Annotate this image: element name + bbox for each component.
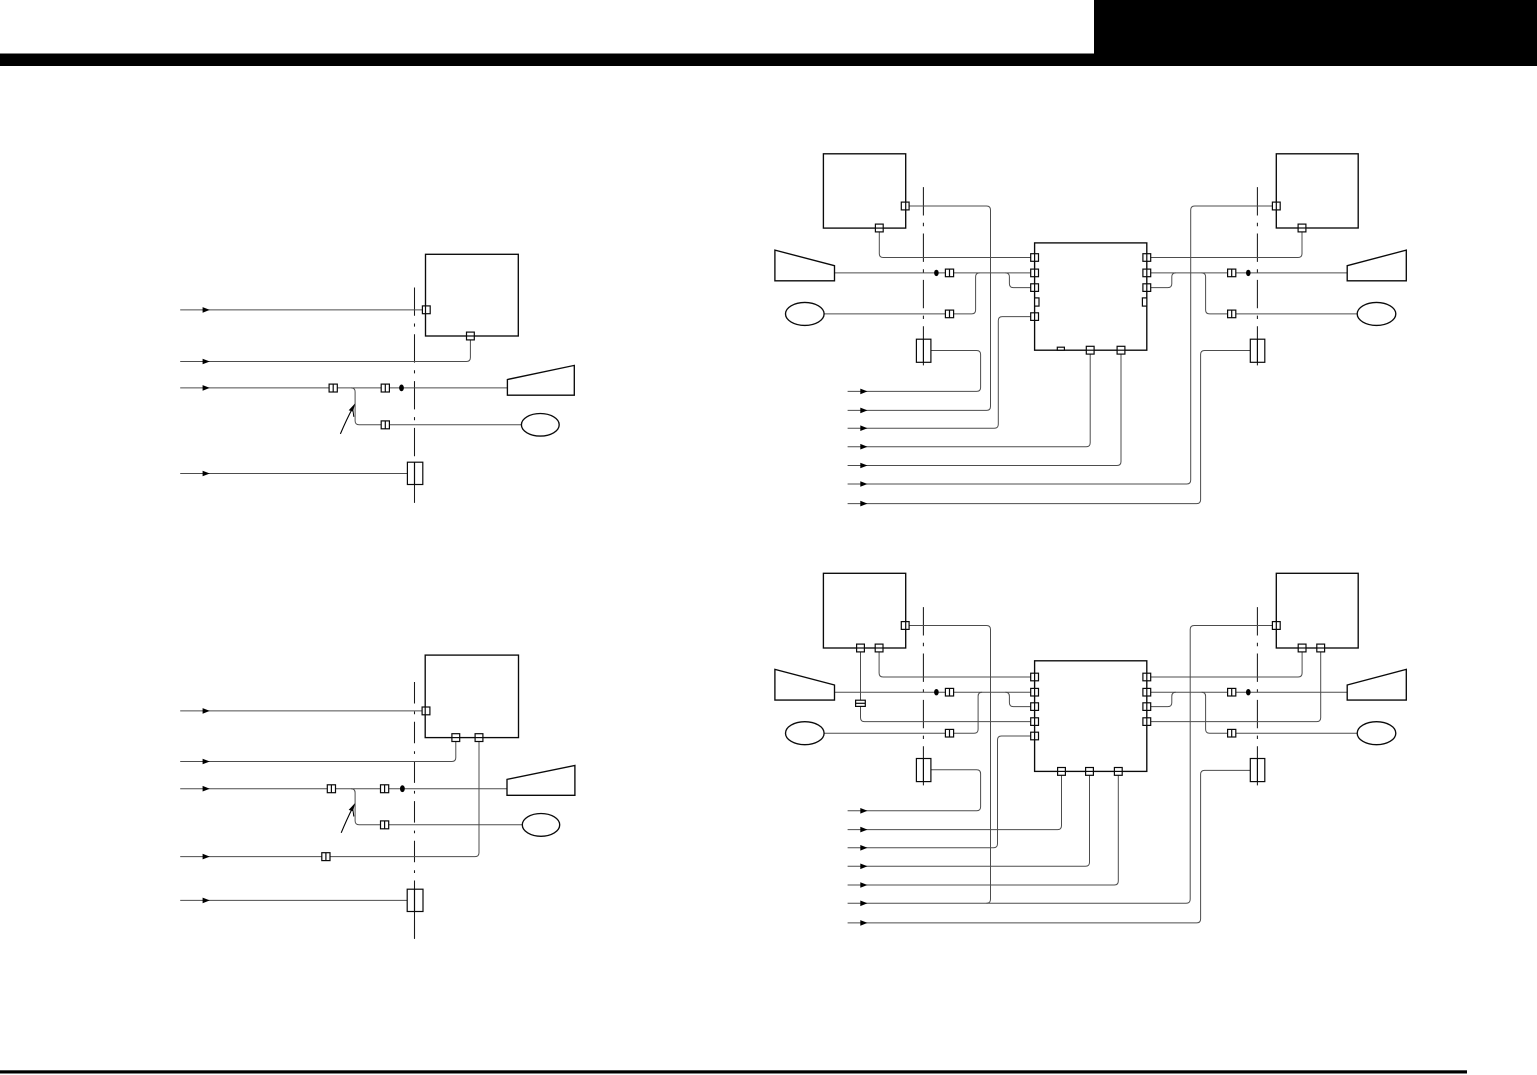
left box bottom connector A divider xyxy=(857,647,865,649)
left IF board divider xyxy=(922,339,924,362)
center amplifier box xyxy=(1035,661,1147,772)
center box left row2 connector xyxy=(1031,269,1039,277)
right tweeter-line inline connector xyxy=(1228,729,1236,737)
arrowhead A6 xyxy=(860,901,867,907)
wire A1 to left IF board xyxy=(848,351,981,392)
arrowhead L1 xyxy=(203,708,210,714)
center box bottom connector1 divider xyxy=(1058,770,1066,772)
center box right row3 divider xyxy=(1146,284,1148,292)
box bottom connector2 divider xyxy=(475,737,483,739)
center box left row3 divider xyxy=(1034,703,1036,711)
left speaker-line inline connector divider xyxy=(949,688,951,696)
tweeter ellipse xyxy=(522,814,559,837)
amplifier box xyxy=(425,655,518,738)
box left-edge connector divider xyxy=(424,707,426,715)
right box bottom connector xyxy=(1298,224,1306,232)
pointer arrow xyxy=(341,808,352,833)
center box left row1 divider xyxy=(1034,254,1036,262)
left center chain line xyxy=(922,607,924,787)
arrowhead A1 xyxy=(860,808,867,814)
wire left speaker line xyxy=(835,272,1031,274)
right junction dot xyxy=(1246,689,1251,695)
center amplifier box xyxy=(1035,243,1147,350)
left speaker horn xyxy=(775,250,835,281)
pointer arrowhead xyxy=(349,803,356,811)
left tweeter ellipse xyxy=(786,302,825,325)
arrowhead A5 xyxy=(860,882,867,888)
right box left-edge connector xyxy=(1272,622,1280,630)
right tweeter ellipse xyxy=(1357,302,1396,325)
right box left-edge connector xyxy=(1272,202,1280,210)
center box left row4 connector xyxy=(1031,718,1039,726)
center box left row2 divider xyxy=(1034,688,1036,696)
wire right box bottom to center row1 xyxy=(1151,232,1302,258)
center box left row1 connector xyxy=(1031,254,1039,262)
arrowhead A2 xyxy=(860,408,867,414)
pointer arrow xyxy=(340,409,352,434)
wire left tweeter line xyxy=(824,273,980,314)
center box bottom connector3 divider xyxy=(1114,770,1122,772)
wire L5 xyxy=(180,473,407,475)
right box bottom connector B divider xyxy=(1298,647,1306,649)
wire A3 to center box row5 xyxy=(848,317,1031,429)
arrowhead A3 xyxy=(860,845,867,851)
right speaker horn xyxy=(1347,669,1406,700)
pointer arrowhead xyxy=(349,403,356,411)
left center chain line xyxy=(922,187,924,366)
wire A4 to center box bottom conn1 xyxy=(848,354,1091,447)
connector C3 divider xyxy=(384,821,386,829)
connector C2 divider xyxy=(384,785,386,793)
pointer arrowhead tail xyxy=(352,810,355,816)
right speaker-line inline connector xyxy=(1228,269,1236,277)
connector C3 divider xyxy=(384,421,386,429)
wire left box bottom to center row1 xyxy=(879,232,1031,258)
arrowhead L2 xyxy=(203,359,210,365)
center box left row3 connector xyxy=(1031,284,1039,292)
connector C4 on L4 xyxy=(322,853,330,861)
wire left speaker line xyxy=(835,691,1031,693)
left box right-edge connector divider xyxy=(905,202,907,210)
connector C2 on L3 xyxy=(381,384,389,392)
arrowhead A1 xyxy=(860,389,867,395)
connector C2 divider xyxy=(384,384,386,392)
interface board rect xyxy=(407,462,422,484)
left tweeter-line inline connector divider xyxy=(949,310,951,318)
connector C1 on L3 xyxy=(329,384,337,392)
pointer arrowhead tail xyxy=(352,411,355,417)
left box bottom connector B xyxy=(875,644,883,652)
wire A5 to center box bottom conn2 xyxy=(848,354,1121,465)
wire right box bottom B to center row1 xyxy=(1151,652,1302,677)
left box bottom connector xyxy=(875,224,883,232)
arrowhead L5 xyxy=(203,898,210,904)
center chain line xyxy=(414,288,416,503)
center box right row1 connector xyxy=(1143,254,1151,262)
wire right row3 jog xyxy=(1151,273,1176,288)
center box right row4 divider xyxy=(1146,718,1148,726)
interface board divider xyxy=(414,889,416,911)
wire right speaker line xyxy=(1151,272,1348,274)
wire left box right-edge to A6 line xyxy=(909,626,990,904)
woofer horn xyxy=(507,766,575,796)
left IF board rect xyxy=(916,759,931,782)
right tweeter ellipse xyxy=(1357,722,1396,745)
arrowhead A7 xyxy=(860,920,867,926)
wire L3 woofer cord xyxy=(180,387,507,389)
wire left box bottom B to center row1 xyxy=(879,652,1031,677)
center box left row2 divider xyxy=(1034,269,1036,277)
center box right row3 connector xyxy=(1143,703,1151,711)
wire branch to tweeter xyxy=(351,388,521,425)
wire A3 to center box row5 xyxy=(848,736,1031,848)
arrowhead L2 xyxy=(203,759,210,765)
arrowhead L5 xyxy=(203,471,210,477)
left IF board divider xyxy=(922,759,924,782)
left IF board rect xyxy=(916,339,931,362)
center box bottom connector2 xyxy=(1086,768,1094,776)
box bottom connector2 xyxy=(475,734,483,742)
wire L1 xyxy=(180,710,422,712)
right tweeter-line inline connector divider xyxy=(1231,729,1233,737)
left box right-edge connector xyxy=(901,622,909,630)
arrowhead A6 xyxy=(860,481,867,487)
left speaker horn xyxy=(775,669,835,700)
center box right row3 connector xyxy=(1143,284,1151,292)
wire A2 to center box bottom conn1 xyxy=(848,775,1062,829)
arrowhead A2 xyxy=(860,827,867,833)
connector C3 on tweeter wire xyxy=(381,821,389,829)
right IF board rect xyxy=(1250,339,1265,362)
right IF board rect xyxy=(1250,759,1265,782)
arrowhead A4 xyxy=(860,444,867,450)
center box bottom connector2 divider xyxy=(1117,349,1125,351)
connector on left A-wire xyxy=(856,700,866,706)
center box left row1 divider xyxy=(1034,673,1036,681)
left junction dot xyxy=(934,270,939,276)
woofer horn xyxy=(507,365,574,395)
amplifier box xyxy=(426,254,519,336)
left speaker-line inline connector divider xyxy=(949,269,951,277)
right center chain line xyxy=(1256,187,1258,366)
connector C1 divider xyxy=(330,785,332,793)
interface board divider xyxy=(414,462,416,484)
box bottom connector1 xyxy=(452,734,460,742)
left tweeter-line inline connector xyxy=(945,729,953,737)
center box left row3 connector xyxy=(1031,703,1039,711)
right junction dot xyxy=(1246,270,1251,276)
center box left row4 small connector xyxy=(1035,298,1039,306)
wire left box bottom A to center row4 xyxy=(861,652,1031,722)
right box bottom connector A divider xyxy=(1317,647,1325,649)
right surround box xyxy=(1276,573,1358,648)
right speaker-line inline connector divider xyxy=(1231,269,1233,277)
center box right row2 connector xyxy=(1143,269,1151,277)
center box left row2 connector xyxy=(1031,688,1039,696)
center box bottom notch xyxy=(1057,347,1064,350)
left box bottom connector A xyxy=(857,644,865,652)
arrowhead L3 xyxy=(203,385,210,391)
center box left row3 divider xyxy=(1034,284,1036,292)
right speaker-line inline connector divider xyxy=(1231,688,1233,696)
center chain line lower tick xyxy=(414,912,416,939)
wire left row3 jog xyxy=(1005,692,1030,706)
header black tab xyxy=(1094,0,1537,66)
wire right tweeter line xyxy=(1202,273,1358,314)
center box bottom connector1 xyxy=(1086,346,1094,354)
right box left-edge connector divider xyxy=(1275,202,1277,210)
wire right tweeter line xyxy=(1202,692,1358,733)
left speaker-line inline connector xyxy=(945,269,953,277)
wire right box bottom A to center row4 xyxy=(1151,652,1321,722)
box left-edge connector xyxy=(422,306,430,314)
box left-edge connector divider xyxy=(425,306,427,314)
connector on left A-wire divider xyxy=(856,702,866,704)
connector C4 divider xyxy=(325,853,327,861)
DIAGRAM4 xyxy=(775,573,1406,925)
center box bottom connector2 xyxy=(1117,346,1125,354)
right box bottom connector divider xyxy=(1298,227,1306,229)
left surround box xyxy=(823,154,905,228)
wire right row3 jog xyxy=(1151,692,1176,706)
footer rule xyxy=(0,1070,1467,1073)
wire right speaker line xyxy=(1151,691,1348,693)
center box left row5 divider xyxy=(1034,313,1036,321)
left junction dot xyxy=(934,689,939,695)
connector C1 divider xyxy=(332,384,334,392)
right IF board divider xyxy=(1256,339,1258,362)
wire L3 woofer cord xyxy=(180,788,507,790)
box bottom connector divider xyxy=(467,335,475,337)
junction dot on L3 xyxy=(400,785,405,792)
right surround box xyxy=(1276,154,1358,228)
center box left row4 divider xyxy=(1034,718,1036,726)
right center chain line xyxy=(1256,607,1258,787)
wire A5 to center box bottom conn3 xyxy=(848,775,1119,885)
left box right-edge connector divider xyxy=(905,622,907,630)
center box right row4 connector xyxy=(1143,718,1151,726)
center box right row1 connector xyxy=(1143,673,1151,681)
arrowhead A7 xyxy=(860,501,867,507)
left surround box xyxy=(823,573,905,648)
interface board rect xyxy=(407,889,423,911)
wire A4 to center box bottom conn2 xyxy=(848,775,1090,866)
left tweeter ellipse xyxy=(786,722,825,745)
left speaker-line inline connector xyxy=(945,688,953,696)
wire L4 to box bottom conn2 xyxy=(180,742,479,857)
arrowhead L4 xyxy=(203,854,210,860)
left tweeter-line inline connector divider xyxy=(949,729,951,737)
right box bottom connector B xyxy=(1298,644,1306,652)
wire A7 to right IF board xyxy=(848,351,1251,504)
center box right row4 small connector xyxy=(1142,298,1146,306)
center box left row5 connector xyxy=(1031,313,1039,321)
box bottom connector1 divider xyxy=(452,737,460,739)
wire branch to tweeter xyxy=(351,789,522,825)
center chain line xyxy=(414,682,416,939)
center box left row1 connector xyxy=(1031,673,1039,681)
tweeter ellipse xyxy=(521,414,559,437)
center box left row5 divider xyxy=(1034,732,1036,740)
wire L5 xyxy=(180,899,407,901)
left box right-edge connector xyxy=(901,202,909,210)
box bottom connector xyxy=(467,332,475,340)
arrowhead L1 xyxy=(203,307,210,313)
right speaker horn xyxy=(1347,250,1406,281)
right IF board divider xyxy=(1256,759,1258,782)
right box left-edge connector divider xyxy=(1275,622,1277,630)
wire A6 to right surround box xyxy=(848,206,1273,484)
DIAGRAM1 xyxy=(180,254,574,503)
wire A2 to left surround box xyxy=(848,206,991,410)
center box right row1 divider xyxy=(1146,254,1148,262)
wire A7 to right IF board xyxy=(848,770,1251,923)
connector C1 on L3 xyxy=(327,785,335,793)
center box bottom connector1 divider xyxy=(1086,349,1094,351)
center box right row2 divider xyxy=(1146,269,1148,277)
arrowhead A4 xyxy=(860,864,867,870)
center box right row3 divider xyxy=(1146,703,1148,711)
wire L2 xyxy=(180,340,470,362)
wire L2 xyxy=(180,742,456,762)
center box right row1 divider xyxy=(1146,673,1148,681)
arrowhead L3 xyxy=(203,786,210,792)
wire left row3 jog xyxy=(1005,273,1030,288)
center box right row2 connector xyxy=(1143,688,1151,696)
wire L1 front speaker cord xyxy=(180,309,422,311)
wire A1 to left IF board xyxy=(848,770,981,811)
center box bottom connector1 xyxy=(1058,768,1066,776)
right speaker-line inline connector xyxy=(1228,688,1236,696)
arrowhead A3 xyxy=(860,425,867,431)
DIAGRAM3 xyxy=(180,655,575,939)
header bar xyxy=(0,54,1537,67)
center box bottom connector3 xyxy=(1114,768,1122,776)
center box left row5 connector xyxy=(1031,732,1039,740)
connector C2 on L3 xyxy=(381,785,389,793)
center box right row2 divider xyxy=(1146,688,1148,696)
box left-edge connector xyxy=(422,707,430,715)
right box bottom connector A xyxy=(1317,644,1325,652)
DIAGRAM2 xyxy=(775,154,1406,507)
left tweeter-line inline connector xyxy=(945,310,953,318)
wire left tweeter line xyxy=(824,692,982,733)
right tweeter-line inline connector xyxy=(1228,310,1236,318)
left box bottom connector B divider xyxy=(875,647,883,649)
right tweeter-line inline connector divider xyxy=(1231,310,1233,318)
wire A6 to right surround box xyxy=(848,626,1273,904)
arrowhead A5 xyxy=(860,463,867,469)
junction dot on L3 xyxy=(399,385,404,392)
center box bottom connector2 divider xyxy=(1086,770,1094,772)
connector C3 on tweeter wire xyxy=(381,421,389,429)
left box bottom connector divider xyxy=(875,227,883,229)
